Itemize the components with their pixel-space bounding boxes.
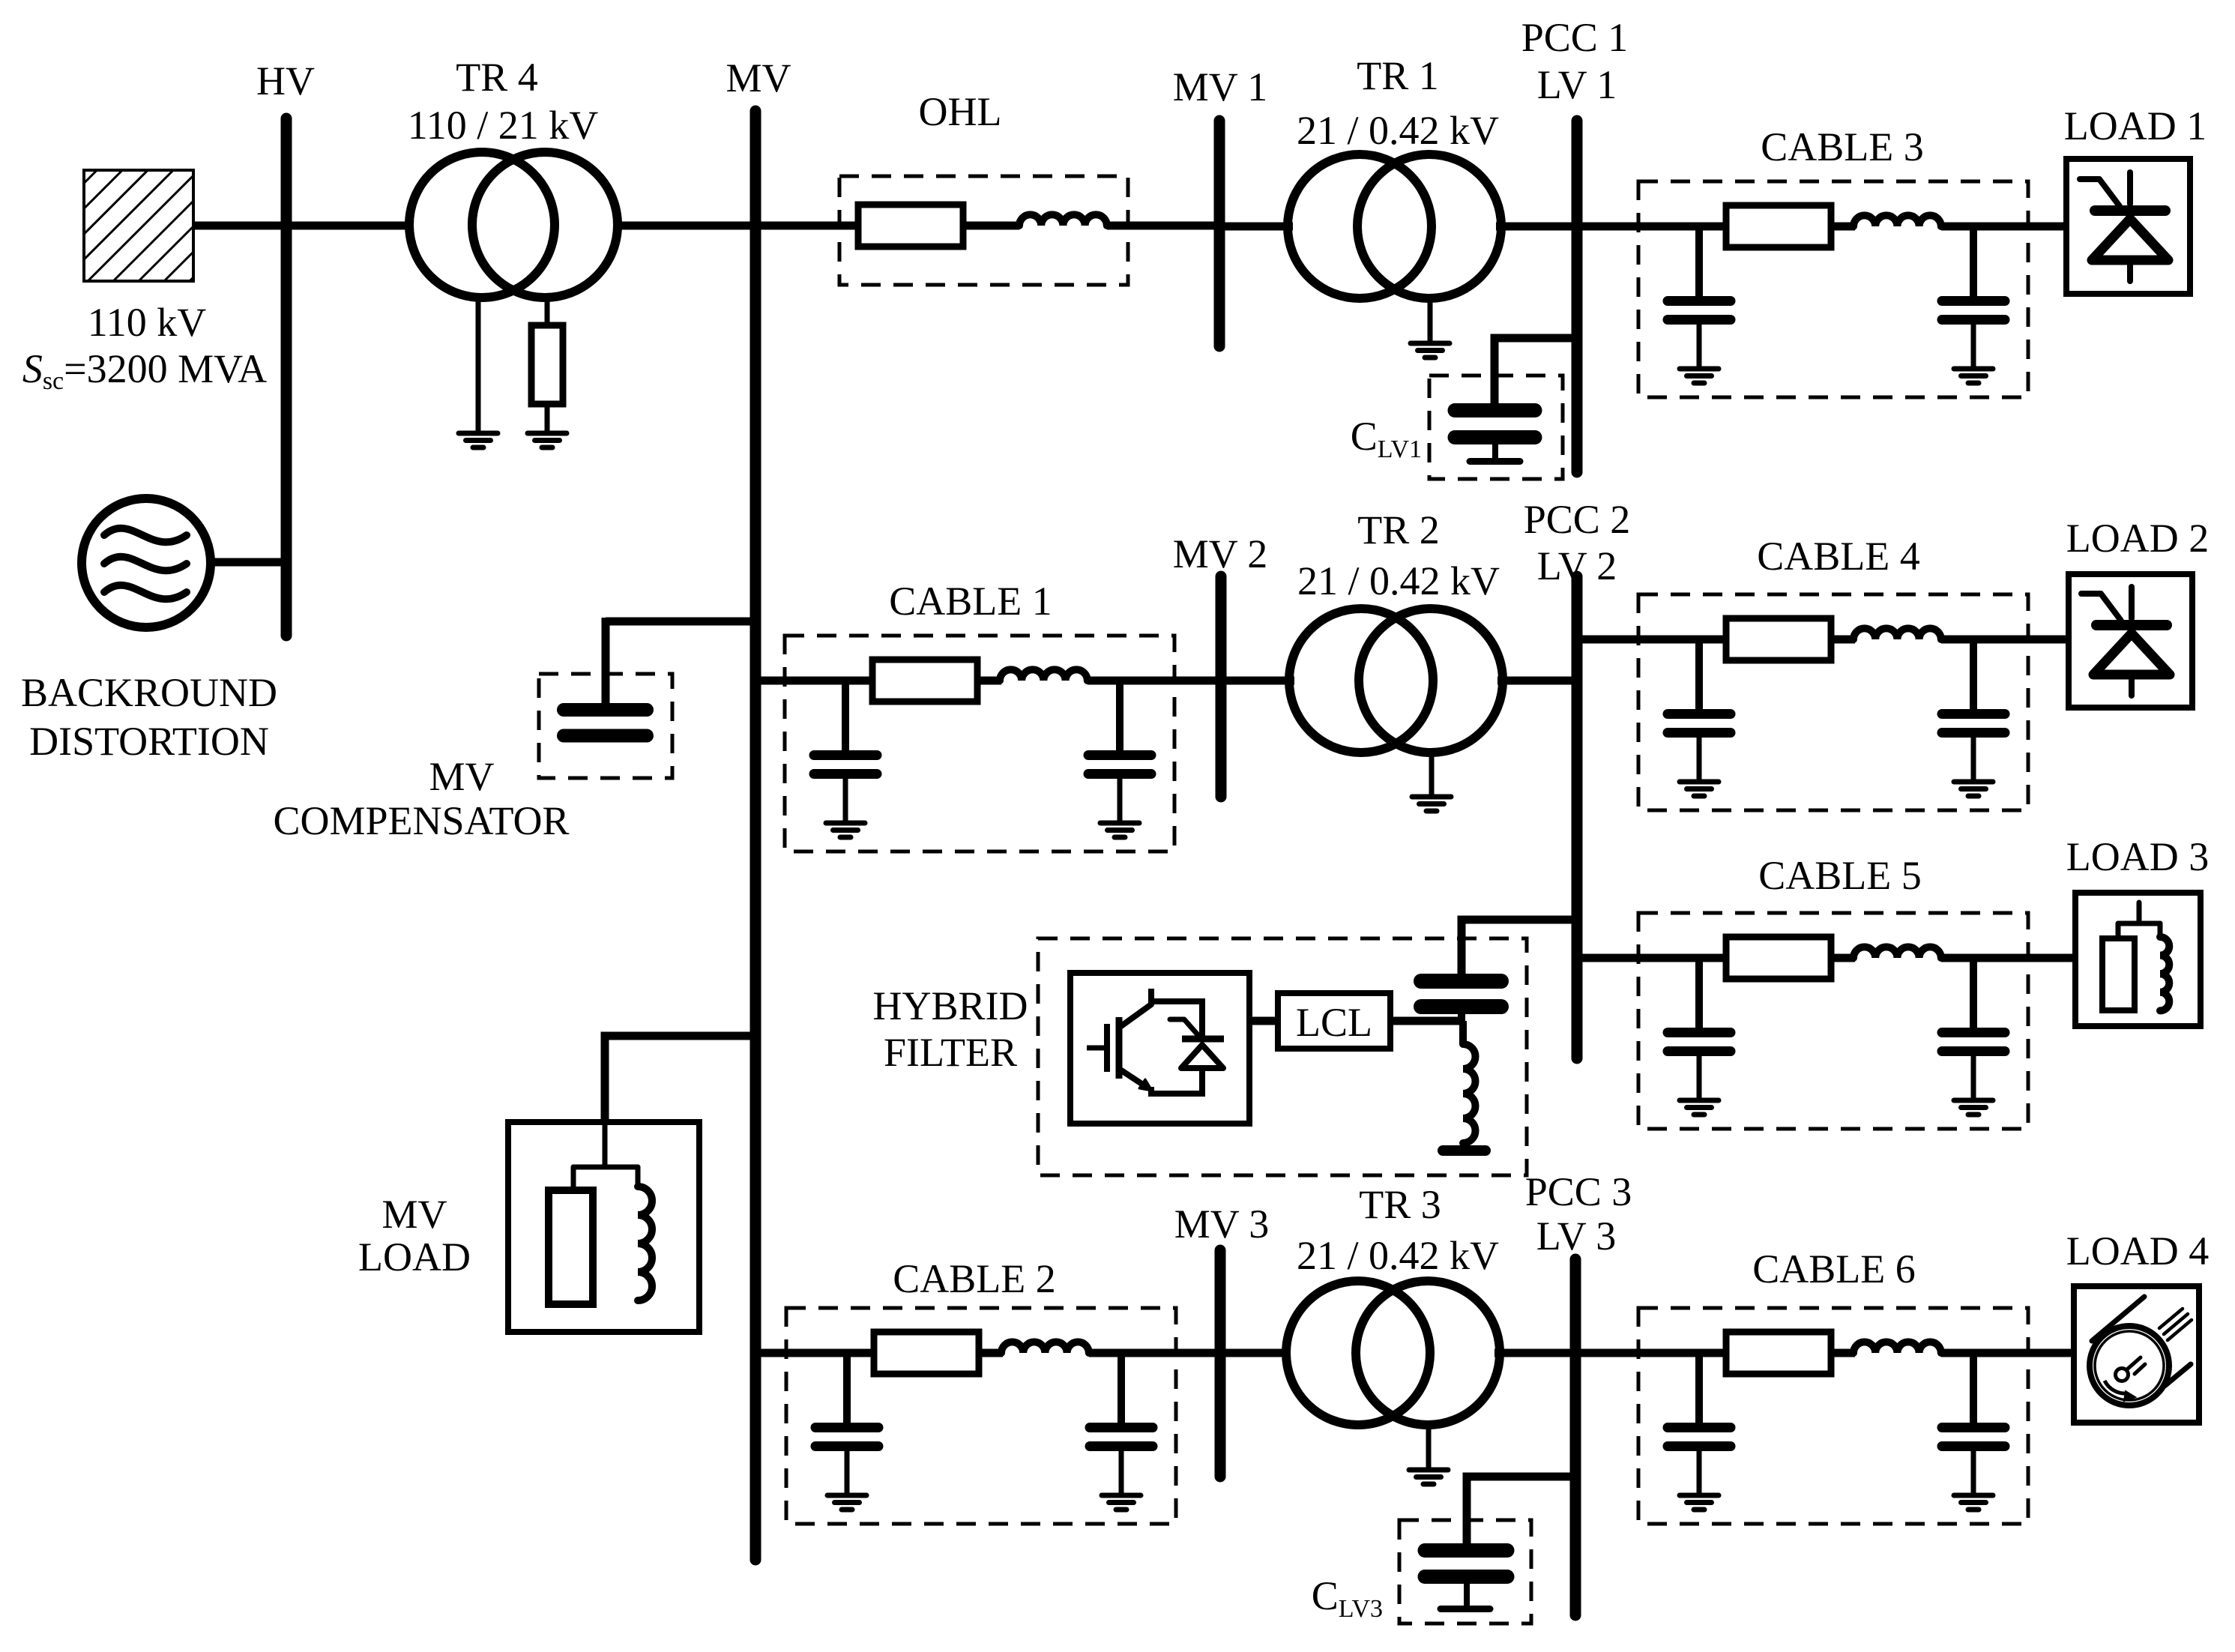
capacitor+ground CABLE6 left shunt (1668, 1353, 1731, 1510)
svg-text:CABLE 3: CABLE 3 (1761, 124, 1924, 169)
thyristor (antiparallel) triangle (1181, 1045, 1223, 1068)
capacitor+ground CABLE1 right shunt (1088, 681, 1151, 837)
capacitor+ground CABLE4 right shunt (1942, 639, 2005, 796)
dashed box CABLE 1 (785, 636, 1174, 851)
dashed box OHL (839, 176, 1128, 285)
svg-text:LOAD 1: LOAD 1 (2064, 103, 2207, 148)
resistor OHL series R (858, 205, 963, 247)
svg-text:LOAD 2: LOAD 2 (2066, 516, 2209, 561)
wire CABLE5 to LOAD3 (1973, 954, 2078, 962)
dashed box CABLE 2 (786, 1308, 1176, 1524)
wire R to L (CABLE5) (1831, 954, 1855, 962)
thyristor (antiparallel) gate lead (1170, 1019, 1201, 1038)
svg-text:MV: MV (429, 754, 494, 799)
inductor CABLE5 series L (1854, 947, 1941, 958)
inductor hybrid filter (vertical) (1443, 1021, 1486, 1151)
resistor TR4 neutral grounding (531, 325, 563, 404)
dashed box MV COMPENSATOR (539, 674, 672, 778)
transistor IGBT body bar (1116, 1017, 1123, 1079)
wire LV2 to CABLE5 (1577, 954, 1703, 962)
wire LV1 to capacitor CLV1 (1494, 338, 1577, 405)
wire R to L (CABLE4) (1831, 636, 1855, 644)
capacitor+ground CABLE4 left shunt (1668, 639, 1731, 796)
resistor CABLE3 series R (1726, 205, 1831, 247)
wire junction to R (CABLE3) (1699, 223, 1728, 231)
svg-text:MV 3: MV 3 (1174, 1202, 1270, 1246)
wire resistor to ground (545, 404, 550, 430)
wire MV bus to CABLE2 (755, 1349, 851, 1357)
resistor CABLE6 series R (1726, 1332, 1831, 1374)
inductor CABLE3 series L (1854, 215, 1941, 226)
ground TR4 primary (459, 433, 498, 447)
bus PCC1 / LV1 (1572, 121, 1583, 472)
svg-text:TR 2: TR 2 (1357, 507, 1440, 552)
wire LV1 to CABLE3 (1577, 223, 1704, 231)
wire junction to R (CABLE2) (847, 1349, 875, 1357)
svg-text:LV 3: LV 3 (1536, 1214, 1617, 1258)
wire CABLE2 to MV3 bus (1121, 1349, 1220, 1357)
wire MV bus to OHL (755, 222, 862, 230)
dashed box CABLE 4 (1638, 594, 2028, 810)
dashed box CABLE 6 (1638, 1308, 2028, 1524)
bus MV 3 (1215, 1250, 1226, 1477)
wire junction to R (CABLE5) (1699, 954, 1728, 962)
svg-text:HV: HV (256, 58, 315, 103)
wire L to junction (CABLE1) (1088, 677, 1123, 685)
wire TR1 neutral (1428, 298, 1433, 341)
wire TR4 secondary neutral (545, 299, 550, 325)
wire TR1 to LV1 bus (1496, 223, 1577, 231)
bus MV 1 (1214, 121, 1225, 346)
wire MV3 to TR3 (1220, 1349, 1291, 1357)
svg-text:PCC 3: PCC 3 (1525, 1169, 1632, 1214)
wire CABLE3 to LOAD1 (1973, 223, 2069, 231)
wire L to junction (CABLE5) (1941, 954, 1977, 962)
wire R to L (CABLE3) (1831, 223, 1855, 231)
svg-text:LOAD 3: LOAD 3 (2066, 834, 2209, 879)
svg-text:21 / 0.42 kV: 21 / 0.42 kV (1297, 1233, 1499, 1278)
wire R to L in OHL (963, 222, 1019, 230)
filter block LCL (1278, 993, 1390, 1049)
transistor IGBT gate lead (1087, 1046, 1107, 1051)
wire TR3 to LV3 bus (1494, 1349, 1575, 1357)
svg-text:FILTER: FILTER (884, 1030, 1017, 1075)
wire CABLE6 to LOAD4 (1973, 1349, 2077, 1357)
load MV LOAD (R-L box) (508, 1122, 699, 1332)
wire source to HV bus (193, 222, 281, 230)
ground TR1 (1411, 343, 1450, 358)
wire TR4 primary neutral to ground (476, 297, 481, 430)
wire MV1 to TR1 (1219, 223, 1293, 231)
svg-text:OHL: OHL (919, 89, 1002, 134)
load LOAD1 (thyristor rectifier) (2066, 159, 2190, 294)
capacitor CLV1 (1455, 411, 1535, 462)
capacitor+ground CABLE2 right shunt (1090, 1353, 1153, 1510)
transformer TR2 (1289, 609, 1503, 753)
bus PCC2 / LV2 (1572, 576, 1583, 1058)
capacitor MV compensator (564, 710, 647, 736)
svg-text:CABLE 5: CABLE 5 (1758, 853, 1922, 898)
dashed box CABLE 5 (1638, 913, 2028, 1129)
dashed box CLV3 (1399, 1520, 1531, 1624)
wire LV2 to CABLE4 (1577, 636, 1703, 644)
capacitor CLV3 (1425, 1551, 1507, 1609)
source BACKROUND DISTORTION (82, 498, 211, 627)
inductor CABLE4 series L (1854, 628, 1941, 639)
svg-text:MV 2: MV 2 (1173, 531, 1268, 576)
svg-text:MV: MV (726, 55, 791, 100)
thyristor (antiparallel) cathode bar (1182, 1036, 1224, 1043)
svg-text:LV 1: LV 1 (1537, 62, 1617, 107)
svg-text:DISTORTION: DISTORTION (29, 719, 269, 764)
bus MV 2 (1216, 576, 1227, 797)
resistor CABLE1 series R (872, 660, 977, 702)
wire junction to R (CABLE6) (1699, 1349, 1728, 1357)
dashed box CABLE 3 (1638, 181, 2028, 397)
wire MV2 to TR2 (1221, 677, 1294, 685)
dashed box HYBRID FILTER (1038, 938, 1527, 1175)
bus PCC3 / LV3 (1570, 1259, 1581, 1615)
svg-text:TR 4: TR 4 (456, 55, 538, 100)
capacitor+ground CABLE6 right shunt (1942, 1353, 2005, 1510)
wire L to junction (CABLE3) (1941, 223, 1977, 231)
svg-text:110 / 21 kV: 110 / 21 kV (408, 103, 599, 148)
svg-text:CABLE 1: CABLE 1 (889, 579, 1052, 624)
inductor CABLE1 series L (1000, 669, 1088, 681)
svg-text:PCC 2: PCC 2 (1524, 497, 1631, 542)
svg-text:110 kV: 110 kV (88, 300, 207, 345)
wire CABLE1 to MV2 bus (1120, 677, 1221, 685)
transistor IGBT emitter lead with arrow (1119, 1069, 1143, 1085)
grid source 110 kV (hatched box) (84, 170, 193, 281)
wire TR2 neutral (1429, 753, 1435, 795)
wire OHL to MV1 bus (1107, 222, 1219, 230)
wire LV3 to CABLE6 (1575, 1349, 1703, 1357)
wire L to junction (CABLE4) (1941, 636, 1977, 644)
capacitor hybrid filter (1421, 981, 1501, 1021)
capacitor+ground CABLE2 left shunt (815, 1353, 878, 1510)
svg-text:HYBRID: HYBRID (872, 983, 1028, 1028)
wire MV bus to compensator (606, 618, 755, 626)
inductor OHL series L (1019, 214, 1107, 226)
ground TR2 (1412, 797, 1451, 811)
inductor CABLE2 series L (1001, 1342, 1089, 1353)
converter U1 (IGBT bridge box) (1070, 973, 1249, 1124)
load LOAD4 (rotating machine) (2074, 1286, 2199, 1423)
bus MV (750, 111, 761, 1560)
wire L to junction (CABLE6) (1941, 1349, 1977, 1357)
capacitor+ground CABLE3 right shunt (1942, 226, 2005, 383)
svg-text:BACKROUND: BACKROUND (21, 670, 277, 715)
ground TR3 (1409, 1470, 1448, 1484)
resistor CABLE5 series R (1726, 937, 1831, 979)
load LOAD2 (thyristor rectifier) (2069, 574, 2192, 708)
svg-text:TR 3: TR 3 (1359, 1182, 1441, 1227)
wire R to L (CABLE2) (979, 1349, 1003, 1357)
resistor CABLE4 series R (1726, 618, 1831, 660)
capacitor+ground CABLE3 left shunt (1668, 226, 1731, 383)
resistor CABLE2 series R (874, 1332, 979, 1374)
wire distortion source to HV bus (212, 558, 286, 567)
wire junction to R (CABLE1) (845, 677, 874, 685)
svg-text:21 / 0.42 kV: 21 / 0.42 kV (1297, 558, 1500, 603)
wire TR2 to LV2 bus (1497, 677, 1577, 685)
svg-text:PCC 1: PCC 1 (1521, 15, 1629, 60)
svg-text:21 / 0.42 kV: 21 / 0.42 kV (1297, 108, 1499, 153)
wire junction to R (CABLE4) (1699, 636, 1728, 644)
svg-text:CABLE 6: CABLE 6 (1752, 1246, 1916, 1291)
svg-text:LOAD 4: LOAD 4 (2066, 1229, 2209, 1273)
dashed box CLV1 (1429, 376, 1563, 479)
wire TR4 to MV bus (618, 222, 755, 230)
capacitor+ground CABLE1 left shunt (814, 681, 877, 837)
wire MV bus to CABLE1 (755, 677, 849, 685)
load LOAD3 (R-L load) (2075, 893, 2201, 1026)
svg-text:TR 1: TR 1 (1357, 53, 1439, 98)
wire CABLE4 to LOAD2 (1973, 636, 2072, 644)
capacitor+ground CABLE5 left shunt (1668, 958, 1731, 1115)
wire converter to LCL (1249, 1017, 1279, 1025)
inductor CABLE6 series L (1854, 1342, 1941, 1353)
transformer TR4 (409, 152, 618, 298)
wire LV3 to capacitor CLV3 (1467, 1477, 1575, 1546)
svg-text:COMPENSATOR: COMPENSATOR (273, 798, 569, 843)
wire LCL to filter C/L (1390, 1017, 1462, 1025)
svg-text:CABLE 4: CABLE 4 (1757, 534, 1920, 579)
svg-text:LOAD: LOAD (358, 1235, 471, 1279)
wire MV bus to MV LOAD (605, 1036, 755, 1124)
svg-text:LCL: LCL (1296, 1000, 1372, 1045)
bus HV (281, 118, 292, 636)
wire IGBT antiparallel branch top (1150, 1001, 1202, 1037)
svg-text:MV 1: MV 1 (1173, 64, 1268, 109)
ground TR4 secondary (528, 433, 567, 447)
wire TR3 neutral (1426, 1425, 1432, 1468)
wire IGBT antiparallel branch bottom (1151, 1070, 1202, 1094)
svg-text:MV: MV (381, 1192, 447, 1237)
transistor IGBT collector lead (1119, 989, 1151, 1028)
transistor IGBT gate bar (1104, 1024, 1110, 1072)
capacitor+ground CABLE5 right shunt (1942, 958, 2005, 1115)
wire LV2 bus to hybrid filter capacitor (1462, 920, 1577, 974)
wire R to L (CABLE1) (977, 677, 1001, 685)
transformer TR3 (1286, 1281, 1500, 1425)
wire HV bus to TR4 (286, 222, 411, 230)
wire R to L (CABLE6) (1831, 1349, 1855, 1357)
transformer TR1 (1288, 154, 1501, 298)
wire L to junction (CABLE2) (1089, 1349, 1125, 1357)
svg-text:CABLE 2: CABLE 2 (893, 1256, 1056, 1301)
